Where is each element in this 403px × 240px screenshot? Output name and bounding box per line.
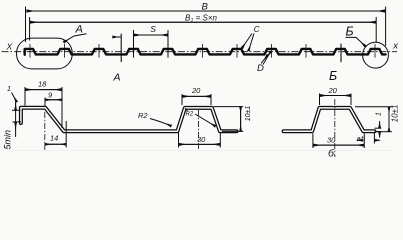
- svg-text:R2: R2: [138, 111, 148, 120]
- svg-text:A: A: [113, 72, 121, 84]
- svg-text:20: 20: [328, 86, 338, 95]
- svg-text:a*: a*: [357, 134, 365, 143]
- svg-text:14: 14: [50, 134, 58, 143]
- svg-text:X: X: [6, 42, 13, 52]
- svg-text:10±1: 10±1: [245, 106, 252, 122]
- svg-text:В1 = S×n: В1 = S×n: [185, 13, 218, 24]
- svg-text:Б: Б: [329, 69, 337, 83]
- svg-text:10±1: 10±1: [391, 105, 400, 123]
- svg-text:30: 30: [327, 136, 336, 145]
- svg-text:A: A: [75, 24, 83, 36]
- svg-text:30: 30: [197, 135, 206, 144]
- svg-text:C: C: [254, 25, 260, 34]
- svg-text:S: S: [150, 24, 156, 34]
- svg-text:1: 1: [7, 86, 11, 93]
- svg-text:5min: 5min: [3, 130, 13, 150]
- svg-text:Б: Б: [346, 25, 354, 39]
- svg-text:20: 20: [191, 86, 201, 95]
- svg-text:D: D: [257, 63, 264, 74]
- svg-text:18: 18: [38, 80, 47, 89]
- svg-text:В: В: [202, 1, 209, 12]
- svg-text:R2: R2: [186, 112, 194, 118]
- svg-text:1: 1: [376, 112, 383, 116]
